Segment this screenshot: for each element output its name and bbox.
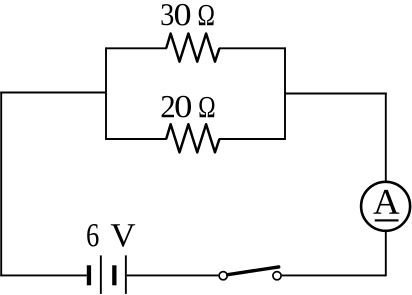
ammeter label A — [373, 190, 399, 214]
switch blade — [228, 267, 279, 275]
battery B1 (6 V, two cells) — [87, 255, 127, 294]
battery short thick plate 2 — [112, 265, 116, 285]
wire: right vertical above ammeter — [385, 93, 387, 182]
resistor R1 (30 ohm) — [166, 34, 219, 62]
switch contact circle left — [219, 272, 227, 280]
wire: left vertical rail — [0, 92, 2, 277]
wire: bottom branch right lead — [219, 138, 285, 140]
wire: top branch left lead — [106, 47, 167, 49]
label: 6 V — [87, 224, 135, 247]
label: 30 ohm — [162, 4, 214, 26]
wire: bottom horizontal from battery to switch — [127, 274, 219, 276]
battery long thin plate 1 — [100, 255, 102, 294]
ammeter dial circle — [361, 182, 410, 231]
battery long thin plate 2 — [125, 255, 127, 294]
label: 20 ohm — [162, 96, 215, 118]
battery short thick plate 1 — [87, 265, 91, 285]
wire: bottom horizontal from left rail to battery — [0, 274, 87, 276]
wire: left horizontal from left rail to parallel box — [0, 92, 106, 94]
wire: top branch right lead — [219, 47, 285, 49]
resistor R2 (20 ohm) — [166, 124, 219, 152]
wire: right horizontal from parallel box to right rail — [285, 93, 387, 95]
wire: bottom horizontal from switch to right rail — [282, 274, 386, 276]
ammeter label A underline — [375, 219, 399, 221]
switch contact circle right — [273, 272, 281, 280]
parallel box left vertical — [105, 47, 107, 140]
switch S1 (open) — [219, 267, 281, 280]
ammeter U1 — [361, 182, 410, 231]
wire: right vertical below ammeter — [385, 231, 387, 276]
parallel box right vertical — [284, 47, 286, 140]
wire: bottom branch left lead — [106, 138, 167, 140]
